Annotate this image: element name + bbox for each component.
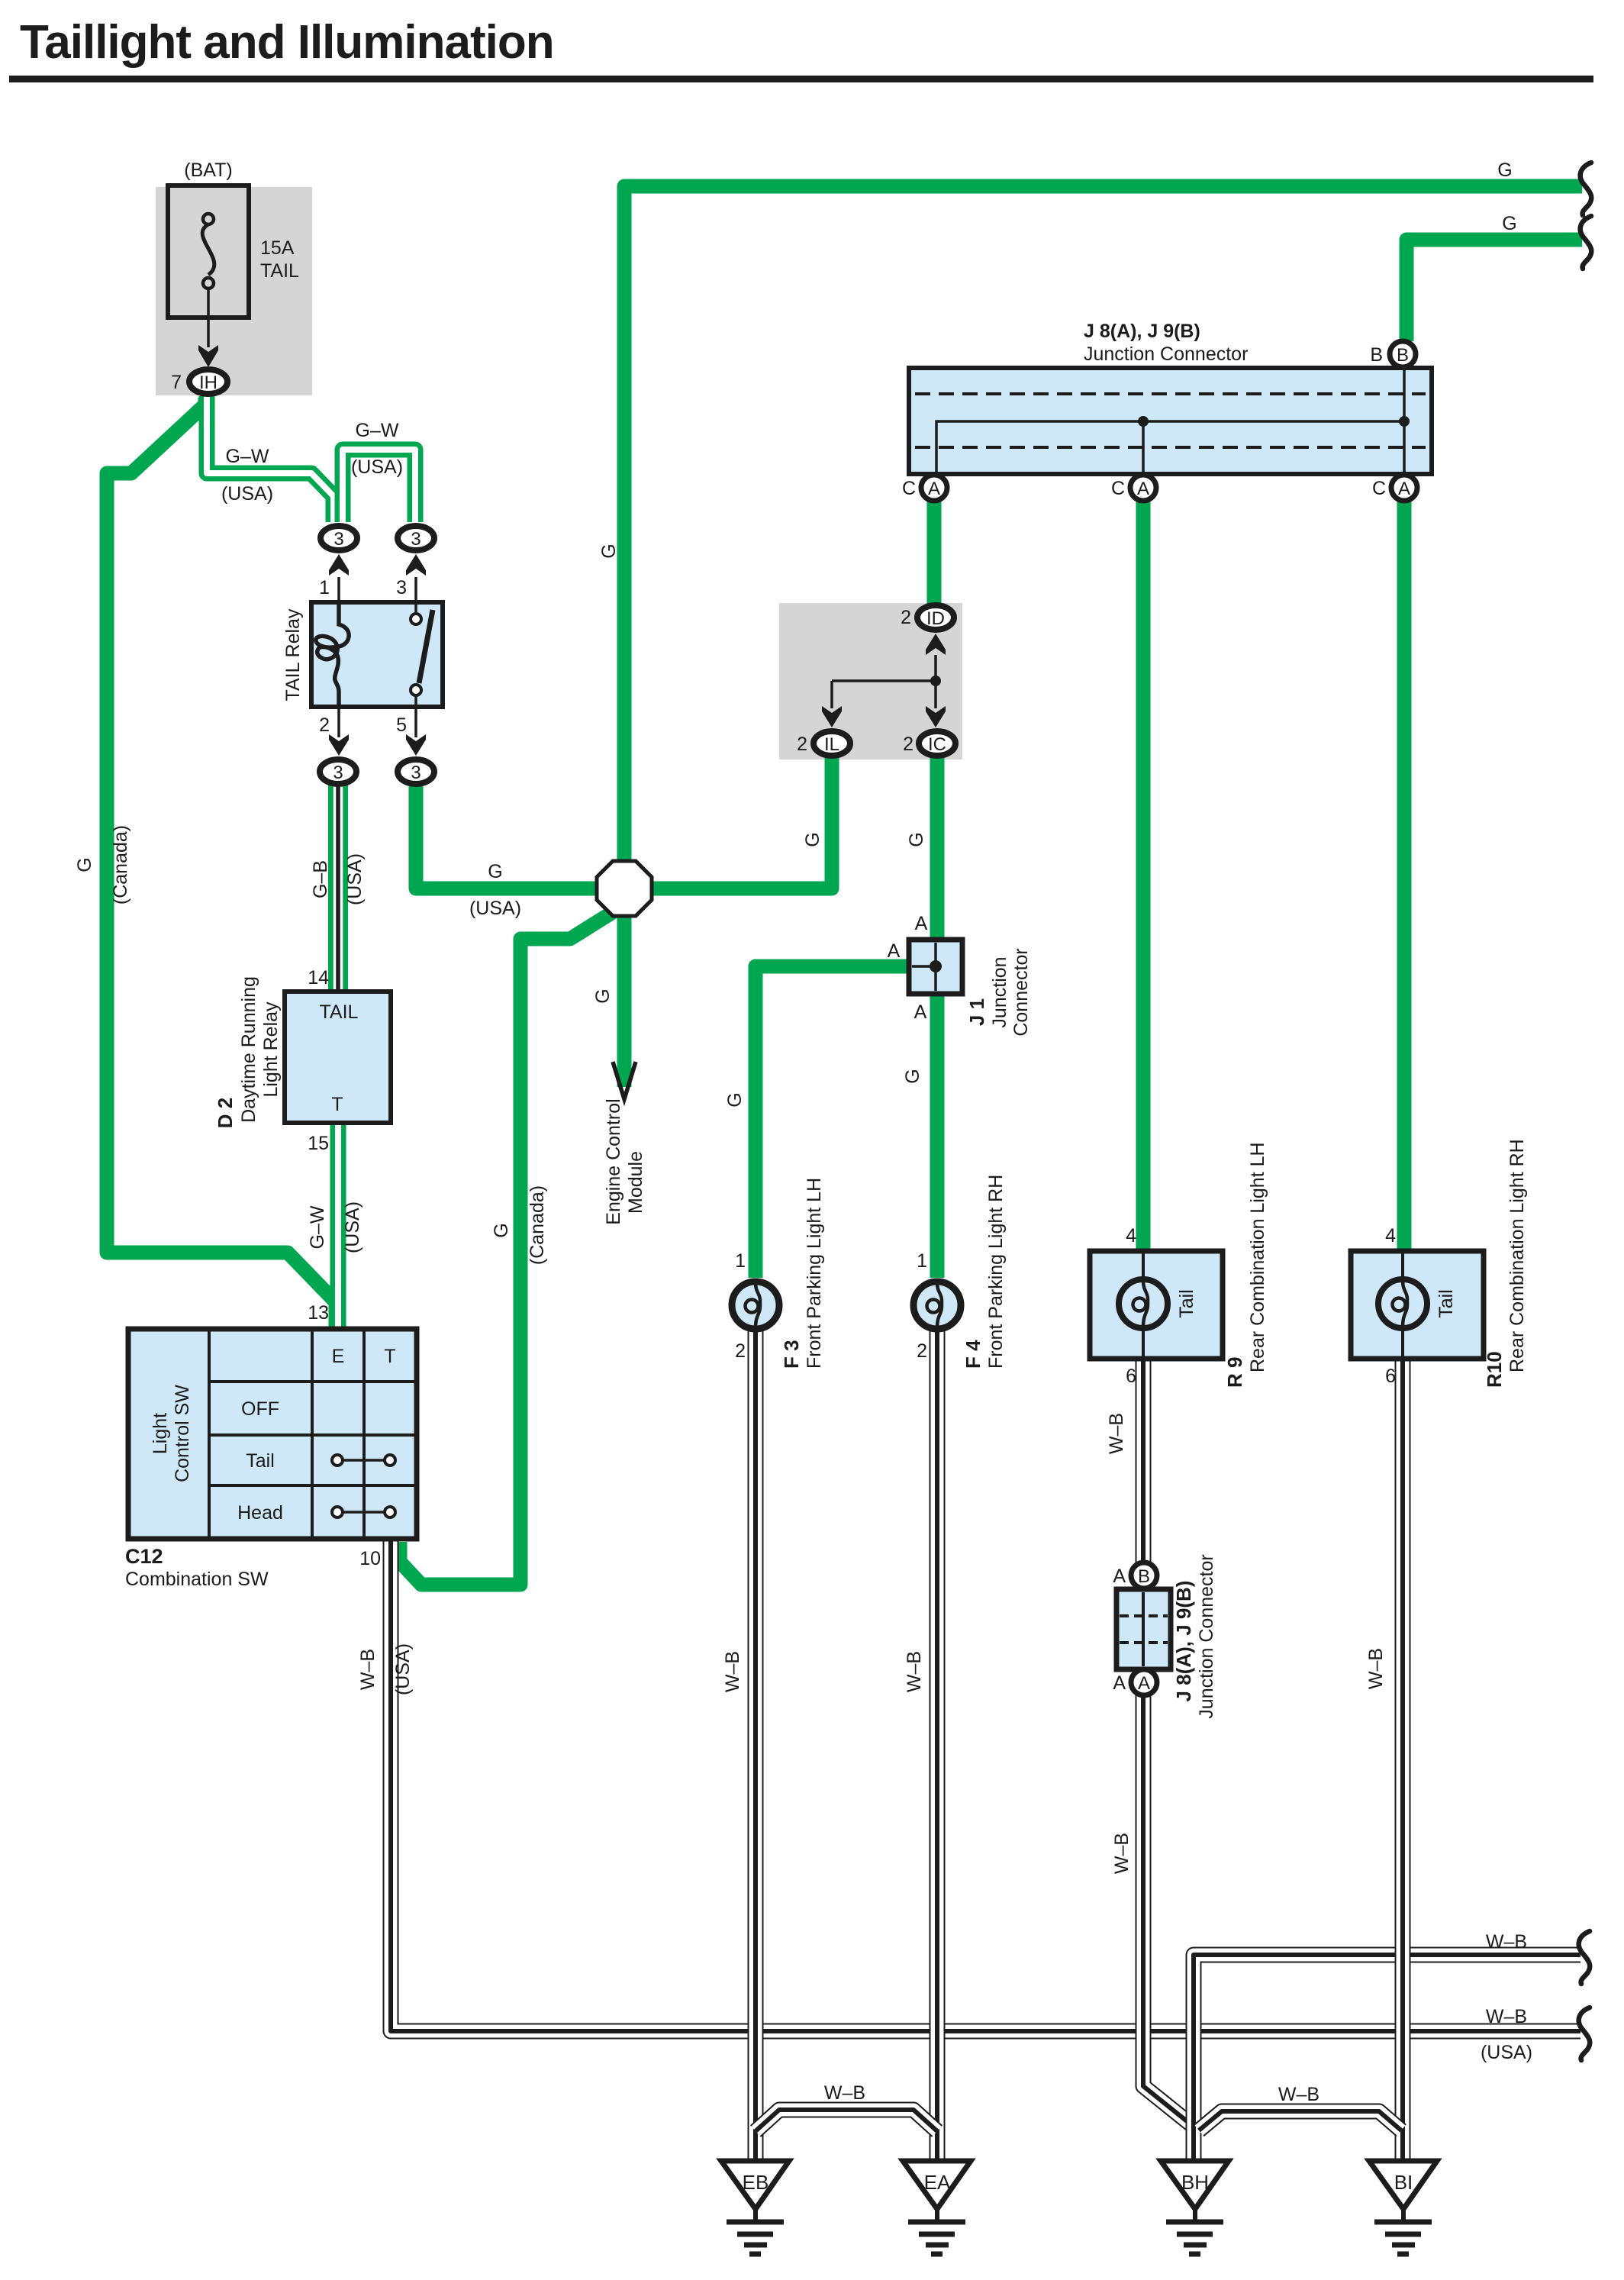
R10 tail bulb bbox=[1378, 1279, 1427, 1328]
svg-text:3: 3 bbox=[333, 529, 343, 550]
svg-text:F 3: F 3 bbox=[780, 1340, 803, 1369]
wire G from TAIL relay pin 5 oval down and right to splice octagon bbox=[416, 786, 607, 888]
svg-text:B: B bbox=[1397, 345, 1409, 366]
svg-text:(USA): (USA) bbox=[344, 853, 366, 905]
svg-text:G–W: G–W bbox=[307, 1205, 328, 1249]
junction connector J8(A) J9(B) main bar bbox=[909, 368, 1432, 474]
svg-text:Light: Light bbox=[150, 1413, 171, 1454]
svg-text:Engine Control: Engine Control bbox=[603, 1098, 624, 1224]
svg-text:W–B: W–B bbox=[1278, 2084, 1319, 2105]
svg-text:(USA): (USA) bbox=[351, 456, 403, 478]
svg-text:J 1: J 1 bbox=[965, 998, 988, 1026]
svg-text:Taillight and Illumination: Taillight and Illumination bbox=[20, 16, 554, 69]
svg-text:ID: ID bbox=[926, 608, 945, 629]
connector circle B small J8/J9 bbox=[1131, 1562, 1157, 1588]
continuation squiggle G top bbox=[1580, 163, 1592, 215]
svg-text:TAIL Relay: TAIL Relay bbox=[282, 608, 304, 701]
svg-text:Rear Combination Light RH: Rear Combination Light RH bbox=[1506, 1139, 1528, 1372]
junction connector J8(A) J9(B) small box bbox=[1116, 1589, 1171, 1669]
svg-text:BH: BH bbox=[1181, 2171, 1209, 2194]
svg-text:G: G bbox=[598, 543, 620, 558]
combination switch C12 box bbox=[128, 1329, 417, 1539]
connector oval 3 (relay pin 5 bottom) bbox=[398, 759, 434, 784]
svg-text:A: A bbox=[928, 479, 940, 499]
svg-text:6: 6 bbox=[1385, 1366, 1396, 1387]
switch contacts Head row bbox=[343, 1511, 385, 1514]
svg-text:R10: R10 bbox=[1483, 1351, 1506, 1388]
svg-text:C: C bbox=[902, 478, 916, 499]
svg-text:A: A bbox=[1398, 479, 1410, 499]
svg-text:G: G bbox=[491, 1223, 512, 1237]
svg-text:1: 1 bbox=[917, 1250, 927, 1272]
svg-text:Junction Connector: Junction Connector bbox=[1084, 343, 1248, 365]
svg-text:W–B: W–B bbox=[357, 1649, 379, 1690]
svg-text:2: 2 bbox=[901, 607, 911, 628]
svg-text:G: G bbox=[74, 857, 95, 872]
R9 tail bulb bbox=[1119, 1279, 1168, 1328]
svg-text:15A: 15A bbox=[260, 237, 295, 259]
arrow up into pin1 oval and line to relay bbox=[329, 554, 349, 602]
line and arrow down from relay pin 2 bbox=[329, 707, 349, 756]
svg-text:1: 1 bbox=[735, 1250, 746, 1272]
svg-text:TAIL: TAIL bbox=[260, 260, 299, 282]
svg-text:6: 6 bbox=[1126, 1366, 1136, 1387]
svg-text:G: G bbox=[906, 832, 927, 847]
wire W-B from R10 pin 6 down to ground BI bbox=[1395, 1359, 1411, 2162]
svg-text:F 4: F 4 bbox=[962, 1340, 984, 1369]
svg-text:14: 14 bbox=[308, 967, 329, 988]
svg-text:10: 10 bbox=[359, 1548, 381, 1569]
line and arrow down from relay pin 5 bbox=[406, 707, 426, 756]
svg-text:Control SW: Control SW bbox=[172, 1385, 193, 1482]
svg-text:R 9: R 9 bbox=[1223, 1357, 1246, 1388]
wire G-W from daytime running light relay pin 15 down to combination switch pin 13 bbox=[330, 1121, 346, 1340]
svg-text:IL: IL bbox=[824, 734, 839, 755]
svg-text:Tail: Tail bbox=[246, 1450, 275, 1472]
svg-text:A: A bbox=[914, 1001, 927, 1023]
svg-text:3: 3 bbox=[396, 577, 407, 598]
connector oval 3 (TAIL relay pin 3 top) bbox=[398, 526, 434, 550]
splice octagon (G junction) bbox=[597, 861, 652, 916]
wire W-B from F4 down to ground EA bbox=[930, 1331, 946, 2162]
svg-text:(Canada): (Canada) bbox=[527, 1185, 548, 1265]
svg-text:G–B: G–B bbox=[310, 860, 331, 898]
wire W-B (USA) from combination switch pin 10 down and right to continuation bbox=[391, 1539, 1580, 2031]
svg-text:W–B: W–B bbox=[1111, 1833, 1133, 1874]
wire G from IC down to junction connector J1 bbox=[930, 756, 945, 943]
svg-text:13: 13 bbox=[308, 1302, 329, 1324]
svg-text:Connector: Connector bbox=[1010, 948, 1032, 1036]
svg-text:G: G bbox=[724, 1092, 746, 1107]
connector circle B top of junction bar bbox=[1390, 341, 1416, 367]
wire G-W loop bridge over the two 3 ovals bbox=[343, 450, 415, 522]
svg-text:3: 3 bbox=[333, 763, 343, 783]
svg-text:A: A bbox=[1137, 479, 1149, 499]
connector IC oval bbox=[919, 731, 955, 756]
svg-text:3: 3 bbox=[411, 763, 420, 783]
arrow up into ID oval bbox=[926, 634, 946, 681]
arrow down into IL oval bbox=[822, 706, 842, 727]
svg-text:T: T bbox=[384, 1346, 395, 1367]
wire W-B from continuation down to ground BH bbox=[1194, 1955, 1580, 2162]
wire G from junction connector A down to rear combination light RH R10 bbox=[1397, 499, 1412, 1252]
connector IL oval bbox=[814, 731, 850, 756]
wire G from splice octagon right to IL bbox=[641, 759, 832, 888]
connector ID oval bbox=[917, 605, 954, 630]
connector circle A middle under junction bar bbox=[1130, 475, 1156, 501]
continuation squiggle G second bbox=[1580, 216, 1592, 269]
continuation squiggle W-B (USA) lower bbox=[1579, 2007, 1590, 2060]
wire W-B from junction connector J8/J9 A down joining ground BH wire bbox=[1143, 1693, 1194, 2127]
svg-text:EB: EB bbox=[743, 2171, 769, 2194]
ground BI bbox=[1369, 2161, 1437, 2254]
svg-text:Front Parking Light RH: Front Parking Light RH bbox=[985, 1175, 1007, 1369]
svg-text:G: G bbox=[802, 832, 823, 847]
svg-text:W–B: W–B bbox=[1106, 1413, 1127, 1454]
wire G from J1 left to front parking light LH F3 bbox=[756, 966, 912, 1278]
svg-text:W–B: W–B bbox=[1365, 1648, 1387, 1689]
svg-text:G: G bbox=[488, 861, 502, 882]
front parking light RH F4 bulb bbox=[913, 1282, 961, 1329]
svg-text:J 8(A), J 9(B): J 8(A), J 9(B) bbox=[1172, 1581, 1195, 1702]
svg-text:(USA): (USA) bbox=[342, 1201, 363, 1253]
rear combination light LH R9 box bbox=[1090, 1251, 1223, 1359]
wire W-B from F3 down to ground EB bbox=[748, 1331, 764, 2162]
svg-text:BI: BI bbox=[1394, 2171, 1413, 2194]
wire G from junction connector A to ID bbox=[927, 499, 942, 607]
svg-text:Junction: Junction bbox=[989, 956, 1010, 1027]
wire G from J1 down to front parking light RH F4 bbox=[930, 991, 945, 1278]
svg-text:1: 1 bbox=[319, 577, 330, 598]
internal link IL IC junction bbox=[832, 676, 941, 708]
svg-text:(BAT): (BAT) bbox=[184, 160, 232, 181]
svg-text:Front Parking Light LH: Front Parking Light LH bbox=[804, 1178, 825, 1369]
ground EB bbox=[721, 2161, 789, 2254]
svg-text:Light Relay: Light Relay bbox=[260, 1001, 282, 1098]
relay coil bbox=[316, 602, 349, 707]
ground BH bbox=[1161, 2161, 1229, 2254]
svg-text:T: T bbox=[331, 1094, 343, 1115]
svg-text:W–B: W–B bbox=[722, 1651, 743, 1692]
junction connector J1 box bbox=[909, 940, 962, 994]
arrow into IH bbox=[198, 345, 218, 367]
gray background fuse block bbox=[156, 187, 312, 395]
wire G main feed: top horizontal to Engine Control Module vertical bbox=[624, 186, 1582, 1087]
svg-text:W–B: W–B bbox=[1486, 1931, 1527, 1953]
wire W-B bridge between EB and EA grounds bbox=[756, 2110, 937, 2131]
connector circle A right under junction bar bbox=[1391, 475, 1417, 501]
wire G (Canada) from splice octagon down-left and down to combination switch pin 10 bbox=[400, 912, 613, 1585]
svg-text:G: G bbox=[1497, 160, 1512, 181]
wire W-B bridge between BH and BI grounds bbox=[1199, 2111, 1401, 2130]
svg-text:2: 2 bbox=[319, 714, 330, 736]
wire G from IL down (short stub into gray box bottom) bbox=[825, 756, 839, 888]
svg-text:Junction Connector: Junction Connector bbox=[1196, 1554, 1217, 1718]
svg-text:C: C bbox=[1372, 478, 1386, 499]
ground EA bbox=[903, 2161, 971, 2254]
svg-text:IH: IH bbox=[199, 372, 217, 393]
continuation squiggle W-B upper bbox=[1579, 1931, 1590, 1984]
svg-text:A: A bbox=[888, 940, 901, 962]
svg-text:Tail: Tail bbox=[1435, 1289, 1457, 1318]
svg-text:Head: Head bbox=[237, 1502, 283, 1524]
svg-text:W–B: W–B bbox=[1486, 2006, 1527, 2027]
svg-text:W–B: W–B bbox=[904, 1651, 925, 1692]
svg-text:(USA): (USA) bbox=[1481, 2042, 1532, 2063]
svg-text:G–W: G–W bbox=[356, 420, 399, 441]
arrow up into pin3 oval and line to relay bbox=[406, 554, 426, 602]
svg-text:Combination SW: Combination SW bbox=[125, 1569, 269, 1590]
svg-text:OFF: OFF bbox=[241, 1398, 279, 1420]
svg-text:15: 15 bbox=[308, 1133, 329, 1154]
svg-text:(USA): (USA) bbox=[221, 483, 273, 505]
connector oval 3 (relay pin 2 bottom) bbox=[320, 759, 356, 784]
svg-text:C12: C12 bbox=[125, 1545, 163, 1568]
svg-text:G: G bbox=[1502, 213, 1516, 234]
svg-text:Module: Module bbox=[625, 1151, 646, 1214]
wire W-B from R9 pin 6 down to junction connector J8/J9 B bbox=[1136, 1359, 1152, 1565]
connector IH oval bbox=[189, 369, 227, 394]
svg-text:J 8(A), J 9(B): J 8(A), J 9(B) bbox=[1084, 321, 1200, 342]
svg-text:3: 3 bbox=[411, 529, 420, 550]
svg-text:(Canada): (Canada) bbox=[110, 825, 131, 905]
wire G-B from TAIL relay pin 2 oval down to daytime running light relay pin 14 bbox=[328, 785, 348, 994]
fuse 15A TAIL bbox=[168, 185, 249, 347]
svg-text:EA: EA bbox=[924, 2171, 951, 2194]
svg-text:G–W: G–W bbox=[226, 446, 269, 467]
svg-text:(USA): (USA) bbox=[392, 1643, 414, 1695]
svg-text:A: A bbox=[915, 913, 928, 934]
svg-text:7: 7 bbox=[171, 372, 182, 393]
title Taillight and Illumination bbox=[9, 16, 1593, 82]
svg-text:A: A bbox=[1138, 1673, 1150, 1694]
front parking light LH F3 bulb bbox=[732, 1282, 779, 1329]
wire G (Canada) from IH down left side to combination switch pin 13 bbox=[107, 398, 336, 1334]
svg-text:E: E bbox=[332, 1346, 345, 1367]
wire G from junction connector A down to rear combination light LH R9 bbox=[1136, 499, 1151, 1252]
svg-text:4: 4 bbox=[1126, 1225, 1136, 1246]
svg-text:G: G bbox=[902, 1069, 923, 1083]
svg-text:A: A bbox=[1113, 1672, 1126, 1694]
svg-text:Tail: Tail bbox=[1176, 1289, 1197, 1318]
svg-text:C: C bbox=[1111, 478, 1125, 499]
connector circle A small J8/J9 bbox=[1131, 1669, 1157, 1695]
svg-text:2: 2 bbox=[797, 734, 807, 755]
relay switch contact bbox=[419, 610, 433, 683]
svg-text:Rear Combination Light LH: Rear Combination Light LH bbox=[1247, 1142, 1268, 1372]
svg-text:W–B: W–B bbox=[824, 2082, 865, 2104]
svg-text:B: B bbox=[1138, 1566, 1150, 1587]
arrow to Engine Control Module bbox=[613, 1062, 636, 1099]
svg-text:A: A bbox=[1113, 1566, 1126, 1587]
svg-text:D 2: D 2 bbox=[214, 1098, 237, 1128]
rear combination light RH R10 box bbox=[1351, 1251, 1484, 1359]
svg-text:TAIL: TAIL bbox=[320, 1001, 359, 1023]
wire G from junction connector B up and right to continuation bbox=[1406, 240, 1582, 341]
svg-text:2: 2 bbox=[917, 1340, 927, 1362]
svg-text:B: B bbox=[1370, 344, 1383, 366]
switch contacts Tail row bbox=[343, 1459, 385, 1462]
arrow down into IC oval bbox=[926, 706, 946, 727]
daytime running light relay D2 box bbox=[285, 992, 391, 1123]
svg-text:Daytime Running: Daytime Running bbox=[238, 976, 259, 1123]
svg-text:IC: IC bbox=[928, 734, 946, 755]
connector oval 3 (TAIL relay pin 1 top) bbox=[321, 526, 357, 550]
TAIL Relay box bbox=[311, 602, 443, 707]
wire G-W from IH to TAIL relay ovals with USA loop bbox=[207, 396, 333, 522]
svg-text:4: 4 bbox=[1385, 1225, 1396, 1246]
svg-text:5: 5 bbox=[396, 714, 407, 736]
svg-text:2: 2 bbox=[903, 734, 913, 755]
gray background IL/IC/ID block bbox=[779, 603, 962, 759]
svg-text:G: G bbox=[592, 988, 614, 1003]
svg-text:2: 2 bbox=[735, 1340, 746, 1362]
connector circle A left under junction bar bbox=[921, 475, 947, 501]
svg-text:(USA): (USA) bbox=[469, 898, 521, 919]
